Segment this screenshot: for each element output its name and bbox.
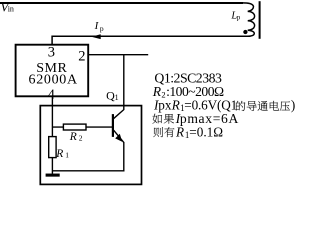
svg-text:): ) [291, 98, 295, 113]
wire pin4 / R1 top [51, 96, 53, 136]
transformer core bar [259, 1, 261, 39]
wire Vin rail [0, 2, 243, 4]
svg-text:R: R [152, 84, 162, 99]
resistor R1 [49, 137, 56, 158]
transistor Q1 [113, 114, 124, 142]
wire emitter return [52, 142, 123, 171]
IC U1 SMR 62000A box [16, 45, 89, 97]
svg-text:62000A: 62000A [29, 73, 78, 88]
inductor L_p primary winding [242, 3, 255, 36]
svg-text:px: px [158, 98, 172, 113]
resistor R2 [63, 124, 86, 130]
snubber module box [40, 106, 141, 185]
svg-text::100~200Ω: :100~200Ω [166, 84, 224, 99]
note line 4: ruguo Ipmax=6A [152, 114, 174, 124]
svg-text:p: p [100, 24, 104, 33]
svg-text:1: 1 [115, 93, 119, 102]
ground [46, 174, 60, 177]
wire Ip primary return [52, 36, 250, 45]
svg-text:R: R [69, 131, 77, 143]
svg-text:4: 4 [48, 87, 56, 103]
svg-text:in: in [8, 4, 14, 13]
svg-text:2: 2 [79, 134, 83, 143]
svg-text:2: 2 [78, 49, 85, 65]
svg-text:1: 1 [65, 150, 69, 159]
wire R1 bottom to ground [51, 158, 53, 174]
wire pin2 to collector node [88, 54, 148, 56]
wire collector [114, 55, 124, 119]
svg-text:R: R [55, 148, 63, 160]
svg-text:3: 3 [48, 45, 55, 61]
polarity dot of Lp [243, 30, 247, 34]
wire base: junction to R2 to base bar [52, 126, 112, 128]
svg-text:p: p [237, 13, 241, 21]
svg-text:R: R [175, 125, 184, 140]
note line 5: zeyou R1=0.1 ohm [153, 127, 174, 137]
svg-text:=0.1Ω: =0.1Ω [189, 125, 223, 140]
current arrow Ip [91, 34, 100, 39]
